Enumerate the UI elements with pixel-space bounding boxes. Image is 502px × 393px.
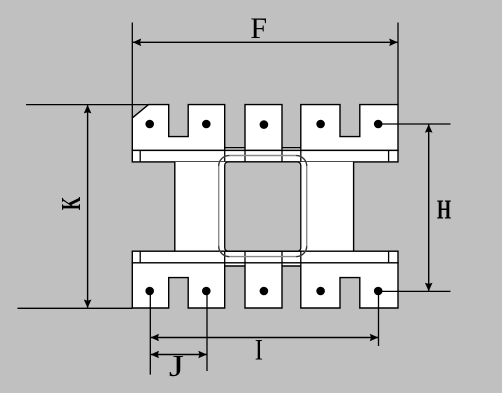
- bobbin bottom winding plate (bar): [132, 251, 398, 263]
- dim H line: [428, 125, 430, 291]
- dim J line: [151, 354, 207, 356]
- pin 6 bottom: [145, 287, 154, 296]
- dim F arrow right: [389, 39, 398, 47]
- dim K extension line bottom: [18, 307, 133, 309]
- pin 7 bottom: [202, 287, 211, 296]
- pin 8 bottom: [260, 287, 269, 296]
- dim F extension line right: [397, 23, 399, 105]
- bobbin bottom flange body: [132, 263, 398, 308]
- pin 5 top: [374, 120, 383, 129]
- svg-text:K: K: [56, 197, 86, 211]
- top gap1 left edge through bar: [224, 148, 226, 162]
- pin 2 top: [202, 120, 211, 129]
- bottom gap2 right edge through bar: [300, 251, 302, 266]
- top bar right tick: [388, 150, 390, 162]
- dim I extension line right (pin 10 lead): [378, 291, 380, 346]
- bobbin top winding plate (bar): [132, 150, 398, 162]
- dim F extension line left: [131, 23, 133, 118]
- bottom bar right tick: [388, 251, 390, 263]
- dim K extension line top: [26, 104, 149, 106]
- bobbin top flange body: [132, 105, 398, 151]
- core window outer rounded square: [219, 156, 307, 257]
- svg-text:F: F: [250, 12, 267, 45]
- dim J arrow right: [198, 351, 207, 359]
- dim F line: [133, 41, 397, 43]
- bottom gap1 left edge through bar: [224, 251, 226, 266]
- dim J extension line (pin 7 lead): [206, 291, 208, 371]
- right leg line: [353, 162, 355, 251]
- bobbin center body (between legs): [175, 162, 354, 251]
- pin 10 bottom: [374, 287, 383, 296]
- pin 4 top: [316, 120, 325, 129]
- pin 1 top: [145, 120, 154, 129]
- dim I extension line left (pin 6 lead): [149, 291, 151, 375]
- top gap2 right edge through bar: [300, 148, 302, 162]
- top bar left tick: [139, 150, 141, 162]
- top gap2 left edge through bar: [281, 148, 283, 162]
- svg-text:I: I: [255, 333, 263, 366]
- dim F arrow left: [133, 39, 142, 47]
- dim K arrow top: [84, 105, 92, 114]
- pin 9 bottom: [316, 287, 325, 296]
- svg-text:J: J: [169, 349, 184, 383]
- dim K line: [87, 105, 89, 308]
- core window inner rounded square: [225, 162, 301, 251]
- left leg line: [174, 162, 176, 251]
- bottom gap1 right edge through bar: [244, 251, 246, 266]
- pin 3 top: [260, 120, 269, 129]
- dim I arrow right: [370, 334, 379, 342]
- svg-text:H: H: [437, 194, 451, 224]
- dim K arrow bottom: [84, 300, 92, 309]
- dim I arrow left: [151, 334, 160, 342]
- dim H extension line bottom (wire from pin 10): [378, 290, 450, 292]
- bottom gap2 left edge through bar: [281, 251, 283, 266]
- dim H extension line top (wire from pin 5): [378, 123, 450, 125]
- top gap1 right edge through bar: [244, 148, 246, 162]
- core window outer corner arcs (darker): [219, 156, 307, 257]
- bottom bar left tick: [139, 251, 141, 263]
- dim H arrow bottom: [425, 283, 433, 292]
- dim I line: [151, 337, 378, 339]
- dim J arrow left: [151, 351, 160, 359]
- dim H arrow top: [425, 124, 433, 133]
